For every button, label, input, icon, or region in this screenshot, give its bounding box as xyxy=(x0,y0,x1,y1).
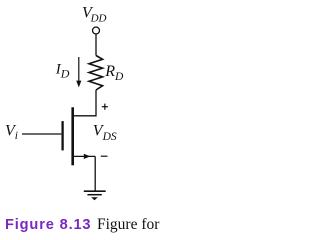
svg-text:Figure for: Figure for xyxy=(97,216,160,233)
wire gate lead xyxy=(22,133,61,135)
svg-text:Figure 8.13: Figure 8.13 xyxy=(5,217,91,233)
wire VDD to resistor xyxy=(95,34,97,55)
wire drain xyxy=(73,90,96,116)
current arrow ID xyxy=(76,57,81,87)
plus sign xyxy=(102,104,108,110)
ground xyxy=(84,191,106,200)
wire source lead with arrow xyxy=(73,154,95,159)
resistor RD xyxy=(89,56,103,91)
transistor Q1 channel bar xyxy=(71,107,74,165)
transistor Q1 gate bar xyxy=(61,121,63,150)
terminal circle VDD xyxy=(93,27,100,34)
wire source down xyxy=(94,156,96,191)
minus sign xyxy=(101,155,108,157)
